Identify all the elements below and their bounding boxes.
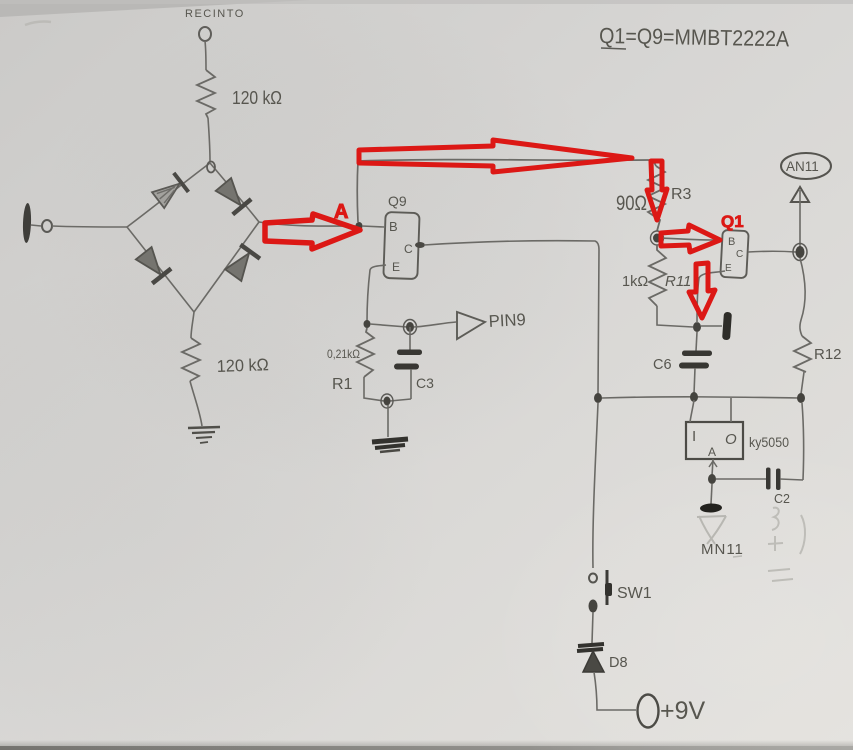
resistor R12 — [794, 336, 811, 372]
svg-text:O: O — [725, 431, 737, 448]
wire bridge right to node A — [259, 222, 356, 226]
node Q1 emitter — [693, 322, 701, 332]
svg-text:0,21kΩ: 0,21kΩ — [327, 347, 360, 361]
wire Q1 B tick — [713, 238, 721, 240]
svg-text:+9V: +9V — [660, 697, 706, 725]
svg-text:AN11: AN11 — [786, 159, 819, 174]
wire R3 node to Q1 B — [661, 238, 716, 240]
svg-text:I: I — [692, 428, 696, 445]
svg-text:E: E — [392, 260, 400, 274]
red arrow down R3 — [647, 161, 667, 220]
node A junction — [356, 222, 363, 230]
red arrow into Q1 B — [661, 225, 720, 252]
svg-text:ky5050: ky5050 — [749, 435, 789, 450]
wire node to C2 left — [716, 478, 766, 480]
label R12 — [814, 346, 842, 363]
wire R12 bottom to node — [801, 372, 804, 394]
diode D-bottom-right — [223, 245, 259, 283]
label 120kOhm bottom — [216, 355, 269, 376]
wire terminal to R top — [205, 41, 206, 70]
label 1kOhm — [622, 274, 648, 290]
bridge diamond wires — [127, 163, 259, 312]
capacitor C6 — [679, 332, 712, 394]
diode D-top-right — [214, 177, 251, 215]
label PIN9 — [488, 310, 526, 331]
wire Q9 E down to R1 node — [367, 265, 386, 322]
switch SW1 — [589, 570, 613, 613]
node A pin — [708, 474, 716, 484]
svg-text:R1: R1 — [332, 376, 353, 393]
red arrow down to emitter node — [689, 263, 715, 318]
red label A — [334, 201, 348, 223]
faint scribbles right — [768, 508, 805, 581]
ground blob under box — [700, 503, 722, 513]
resistor R1 — [357, 328, 374, 377]
wire D8 to +9V — [594, 672, 636, 710]
label C2 — [774, 492, 790, 506]
svg-text:B: B — [728, 236, 735, 248]
capacitor C2 — [766, 468, 803, 491]
wire right vertical to C2 — [802, 403, 804, 480]
svg-text:Q1: Q1 — [721, 212, 744, 231]
wire I riser — [690, 400, 694, 422]
wire R bottom to ground — [190, 381, 202, 426]
terminal left bar — [22, 203, 31, 243]
svg-text:B: B — [389, 219, 398, 234]
faint erased X mark — [697, 516, 726, 544]
diode D-bottom-left — [134, 246, 171, 284]
label C6 — [653, 357, 672, 373]
wire circle to bridge left — [52, 226, 127, 227]
svg-text:120 kΩ: 120 kΩ — [216, 355, 269, 376]
wire node A up and across top — [357, 160, 656, 222]
svg-text:Q1=Q9=MMBT2222A: Q1=Q9=MMBT2222A — [599, 23, 790, 51]
svg-text:C: C — [736, 249, 743, 260]
label D8 — [609, 655, 628, 671]
svg-text:C6: C6 — [653, 357, 672, 373]
node mid vertical bottom — [594, 393, 602, 403]
wire Q1 E down — [697, 271, 725, 323]
wire bar to circle — [31, 225, 41, 226]
wire antenna to node — [799, 190, 801, 247]
label 90 Ohm — [616, 192, 647, 215]
wire SW1 to D8 — [592, 612, 593, 643]
wire node to C3 node — [370, 324, 407, 327]
terminal +9V oval — [638, 695, 659, 728]
buffer PIN9 triangle — [457, 312, 485, 339]
label R11 — [665, 273, 691, 290]
svg-text:SW1: SW1 — [617, 585, 652, 602]
svg-text:E: E — [725, 263, 732, 274]
terminal left circle — [42, 220, 52, 232]
wire bridge bottom to R — [191, 312, 194, 338]
wire R11 bottom to E node — [657, 306, 693, 327]
terminal bar right of node — [701, 312, 732, 340]
resistor 120k top — [197, 70, 215, 118]
label R3 — [671, 186, 692, 203]
label 0,21kOhm — [327, 347, 360, 361]
svg-text:RECINTO: RECINTO — [185, 8, 245, 20]
diode D-top-left — [151, 173, 189, 210]
wire C3 node to PIN9 buffer — [414, 322, 456, 327]
label R1 — [332, 376, 353, 393]
label KY5050 — [749, 435, 789, 450]
node C6 bottom — [690, 392, 698, 402]
wire R top to bridge top — [208, 118, 210, 161]
wire node down to R12 — [800, 258, 805, 336]
node R1/C3 bottom — [381, 394, 393, 408]
antenna triangle — [791, 187, 809, 202]
svg-text:A: A — [708, 445, 716, 459]
label SW1 — [617, 585, 652, 602]
wire Q9 C to mid vertical — [424, 241, 599, 394]
node RECINTO label — [185, 8, 245, 20]
resistor R3 — [648, 166, 665, 231]
node right bottom — [797, 393, 805, 403]
node C3 top — [404, 320, 417, 335]
ground under C3 — [372, 439, 408, 452]
label Q1=Q9=MMBT2222A — [599, 23, 790, 51]
wire O riser — [730, 398, 732, 422]
svg-text:90Ω: 90Ω — [616, 192, 647, 215]
svg-text:120 kΩ: 120 kΩ — [232, 88, 282, 108]
label +9V — [660, 697, 706, 725]
resistor 120k bottom — [182, 338, 200, 381]
wire node3 to ground — [387, 405, 389, 437]
svg-text:MN11: MN11 — [701, 541, 744, 558]
red long arrow — [359, 140, 632, 172]
label C3 — [416, 375, 434, 391]
wire Q1 C to right node — [748, 250, 796, 253]
svg-text:R12: R12 — [814, 346, 842, 363]
node bridge top loop — [207, 162, 215, 173]
svg-text:C3: C3 — [416, 375, 434, 391]
terminal RECINTO circle — [199, 27, 211, 41]
svg-text:PIN9: PIN9 — [488, 310, 526, 331]
ground bottom-left — [188, 427, 220, 443]
box KY5050 — [686, 422, 743, 459]
node Q1 collector right — [793, 244, 807, 261]
svg-text:Q9: Q9 — [388, 193, 407, 209]
faint smudge top-left — [25, 22, 51, 25]
red label Q1 — [721, 212, 744, 231]
svg-text:D8: D8 — [609, 655, 628, 671]
red arrow into Q9 B — [265, 214, 360, 249]
svg-text:1kΩ: 1kΩ — [622, 274, 648, 290]
label 120kOhm top — [232, 88, 282, 108]
resistor R11 — [649, 245, 666, 306]
svg-text:R11: R11 — [665, 273, 691, 290]
faint MN11 text — [701, 541, 744, 558]
svg-text:R3: R3 — [671, 186, 692, 203]
wire A node to ground — [711, 484, 712, 504]
wire SW1 branch vertical — [593, 403, 598, 568]
wire mid horizontal y397 — [602, 397, 799, 398]
wire A pin down — [709, 459, 717, 476]
transistor Q9 — [383, 193, 419, 279]
wire R1 bottom to node3 — [364, 377, 384, 401]
svg-text:C2: C2 — [774, 492, 790, 506]
node below R3 — [651, 231, 664, 245]
svg-text:C: C — [404, 242, 413, 256]
node R1 top — [364, 320, 371, 328]
transistor Q1 — [720, 230, 748, 278]
capacitor C3 — [390, 327, 422, 401]
diode D8 — [577, 644, 604, 672]
wire Q9 B to node A — [362, 226, 384, 227]
pin Q9 C blob — [415, 242, 425, 248]
label AN11 oval — [781, 153, 831, 179]
